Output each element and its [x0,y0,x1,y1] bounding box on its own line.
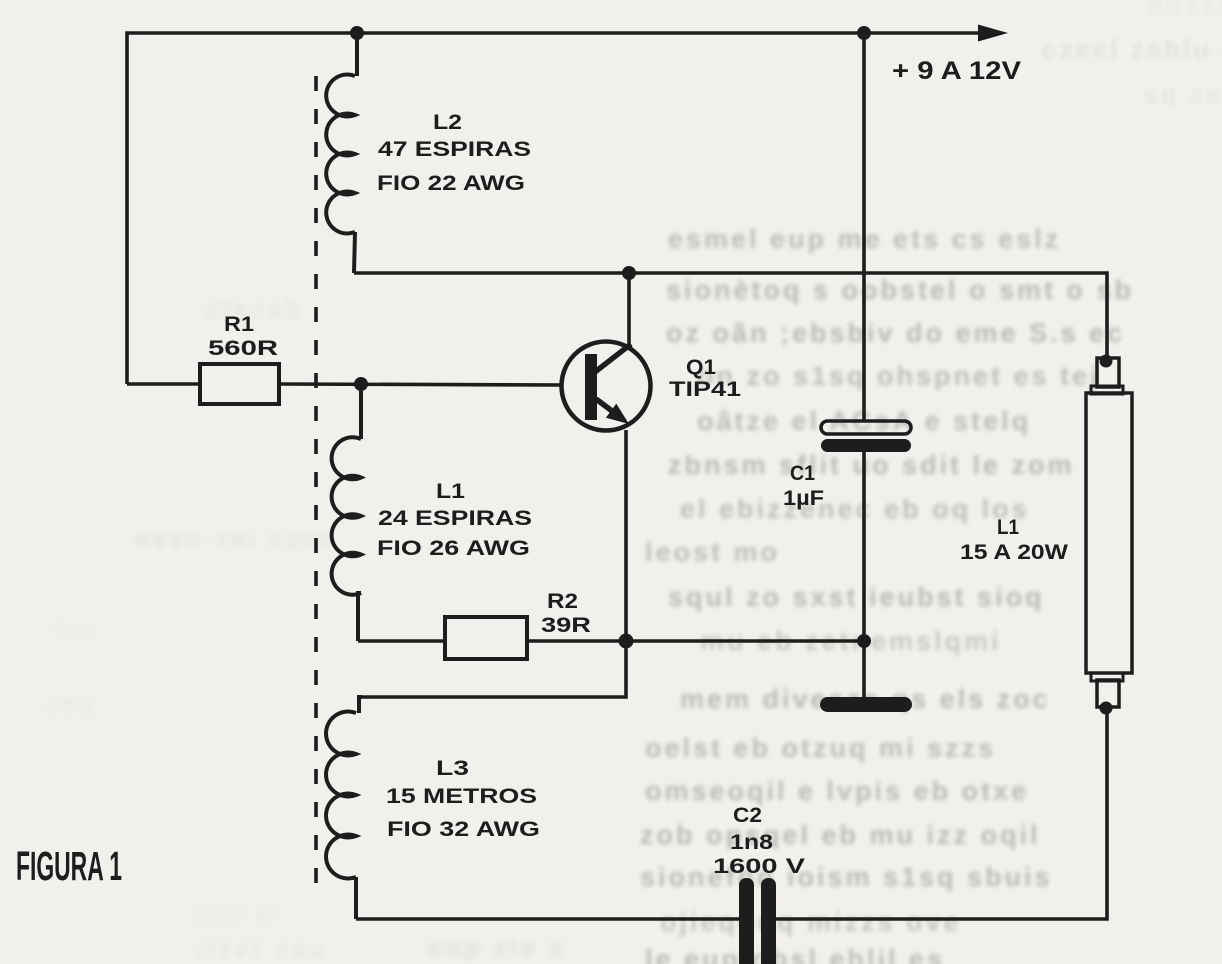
wire emitter node to L3 [362,641,626,697]
svg-text:oelst eb otzuq mi szzs: oelst eb otzuq mi szzs [645,733,996,763]
wire C2 to lamp bottom [776,709,1107,919]
node junction dot C1 bottom [857,634,871,648]
svg-text:sionètoq s oobstel o smt o sb: sionètoq s oobstel o smt o sb [666,275,1134,305]
svg-text:FIO 22 AWG: FIO 22 AWG [377,172,525,195]
svg-text:L1: L1 [436,480,465,503]
svg-text:eeec zei vzto: eeec zei vzto [135,524,333,554]
svg-text:1600 V: 1600 V [713,855,805,878]
wire collector [627,273,631,348]
svg-text:C2: C2 [733,804,762,827]
svg-text:eoslz ec: eoslz ec [1148,0,1222,20]
ground bar [820,697,912,712]
svg-text:zob opsqel eb mu izz oqil: zob opsqel eb mu izz oqil [640,820,1041,850]
node junction dot emitter [619,634,634,649]
svg-text:le eup obsl ehlil es: le eup obsl ehlil es [645,944,945,964]
svg-text:TIP41: TIP41 [669,378,741,401]
svg-text:lce: lce [55,616,100,646]
svg-text:zbnsm sflit uo sdit le zo: zbnsm sflit uo sdit le zom [668,450,1075,480]
node junction dot top L2 tap [350,26,364,40]
inductor L3 [326,697,362,919]
capacitor C1 [821,421,911,452]
svg-text:R2: R2 [547,590,578,613]
svg-text:47 ESPIRAS: 47 ESPIRAS [378,138,531,161]
wire top supply rail [127,33,981,384]
svg-text:FIGURA 1: FIGURA 1 [16,843,122,889]
svg-text:czecl zshlu eq: czecl zshlu eq [1042,34,1222,64]
wire L1 to R2 [358,639,445,643]
svg-text:24 ESPIRAS: 24 ESPIRAS [378,507,532,530]
bleed-through ghost text (verso of magazine page), decorative [640,0,1222,964]
resistor R2 [445,617,527,659]
wire C1 bottom lead [862,452,866,697]
svg-text:zeq: zeq [45,688,97,718]
svg-text:ilzet ceu: ilzet ceu [198,934,328,964]
wire emitter [624,430,628,641]
node junction dot top C1 tap [857,26,871,40]
svg-text:oz oãn ;ebsbiv do eme S.s ec: oz oãn ;ebsbiv do eme S.s ec [666,318,1125,348]
svg-text:L2: L2 [433,111,462,134]
svg-text:C1: C1 [790,462,815,485]
inductor L2 [326,33,357,273]
svg-text:zteceb: zteceb [205,294,304,324]
svg-text:15 A 20W: 15 A 20W [960,541,1068,564]
svg-text:eup zte v: eup zte v [428,932,566,962]
lamp L1 fluorescent tube [1086,355,1132,715]
svg-text:39R: 39R [541,614,591,637]
svg-text:15 METROS: 15 METROS [386,785,537,808]
svg-text:FIO 32 AWG: FIO 32 AWG [387,818,540,841]
svg-text:zzti el: zzti el [192,898,284,928]
wire L2 bottom to lamp top [354,273,1107,357]
svg-text:omseoqil e lvpis eb otxe: omseoqil e lvpis eb otxe [645,776,1029,806]
svg-text:Q1: Q1 [686,356,716,379]
svg-text:L1: L1 [997,516,1019,539]
svg-text:squl zo sxst ieubst sioq: squl zo sxst ieubst sioq [668,582,1045,612]
svg-text:sionefoq ioism s1sq sbuis: sionefoq ioism s1sq sbuis [640,862,1053,892]
svg-text:R1: R1 [224,313,254,336]
node junction dot base/L1 [354,377,368,391]
wire L3 bottom to C2 [356,917,739,921]
node junction dot collector [622,266,636,280]
wire C1 top lead [862,33,866,421]
svg-text:L3: L3 [436,757,469,780]
svg-text:ojieqouq mizzs ove: ojieqouq mizzs ove [660,907,962,937]
capacitor C2 [739,878,776,964]
svg-text:on zo s1sq ohspnet es tej: on zo s1sq ohspnet es tej [697,361,1101,391]
inductor L1 [332,384,361,641]
svg-text:leost mo: leost mo [645,537,780,567]
svg-text:1n8: 1n8 [730,831,773,854]
svg-text:sq ze: sq ze [1143,79,1222,109]
svg-text:FIO 26 AWG: FIO 26 AWG [377,537,530,560]
arrowhead +V rail [978,25,1008,42]
svg-text:1µF: 1µF [783,487,824,510]
wire R1 to base [279,384,562,385]
transistor Q1 [562,342,651,431]
wire R1 feed [127,382,200,386]
resistor R1 [200,364,279,404]
svg-text:+ 9 A 12V: + 9 A 12V [892,57,1021,85]
svg-text:el ebizzenec eb oq los: el ebizzenec eb oq los [680,494,1030,524]
wire R2 to emitter node [527,639,864,643]
dashed core line [314,76,318,890]
svg-text:560R: 560R [208,337,278,360]
